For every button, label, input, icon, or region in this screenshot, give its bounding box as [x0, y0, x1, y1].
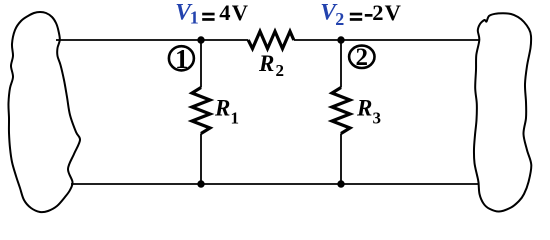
- svg-text:V: V: [232, 0, 248, 25]
- bottom junction dot under node 2: [337, 180, 344, 187]
- svg-text:R: R: [214, 96, 230, 121]
- svg-text:2: 2: [356, 44, 369, 71]
- wire: top rail left segment: [56, 39, 248, 41]
- right circuit cloud (rest of network): [474, 13, 531, 211]
- wire: node 2 vertical upper: [340, 39, 342, 88]
- wire: node 1 vertical lower: [200, 134, 202, 185]
- label V2 = -2 V: [320, 0, 401, 29]
- svg-text:2: 2: [335, 9, 344, 29]
- resistor R2 (zigzag): [248, 31, 294, 48]
- left circuit cloud (rest of network): [8, 12, 80, 212]
- wire: top rail right segment: [294, 39, 479, 41]
- svg-text:R: R: [258, 51, 274, 76]
- svg-text:1: 1: [190, 7, 199, 27]
- label V1 = 4 V: [175, 0, 248, 27]
- svg-text:R: R: [356, 96, 372, 121]
- svg-text:3: 3: [373, 109, 382, 128]
- svg-text:1: 1: [175, 44, 189, 74]
- wire: node 1 vertical upper: [200, 39, 202, 88]
- svg-text:V: V: [385, 0, 401, 25]
- bottom junction dot under node 1: [197, 180, 204, 187]
- svg-text:4: 4: [219, 0, 230, 25]
- label R3: [356, 96, 381, 128]
- node 1 marker: circled 1: [169, 44, 194, 74]
- svg-text:2: 2: [372, 0, 383, 25]
- node 1 junction dot (top): [197, 36, 204, 43]
- resistor R1 (zigzag): [192, 88, 210, 134]
- svg-text:1: 1: [231, 109, 240, 128]
- node 2 marker: circled 2: [349, 44, 374, 71]
- svg-text:2: 2: [276, 61, 285, 80]
- resistor R3 (zigzag): [332, 88, 350, 134]
- wire: node 2 vertical lower: [340, 134, 342, 185]
- label R1: [214, 96, 239, 128]
- wire: bottom rail: [71, 183, 478, 185]
- label R2: [258, 51, 284, 80]
- node 2 junction dot (top): [337, 36, 344, 43]
